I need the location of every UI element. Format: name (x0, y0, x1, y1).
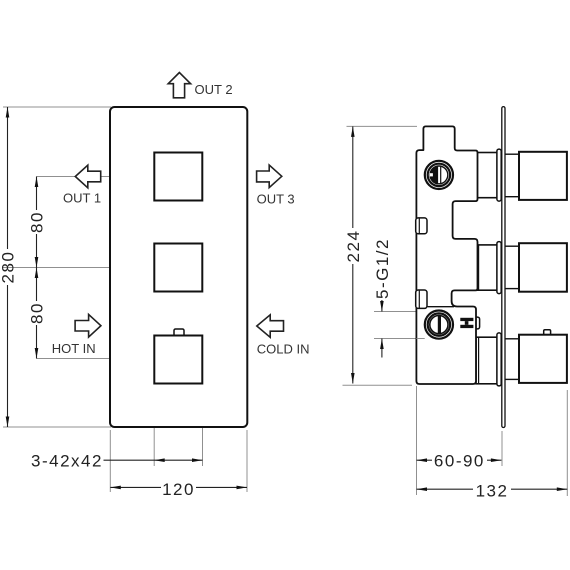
svg-text:80: 80 (28, 211, 47, 233)
svg-text:OUT 2: OUT 2 (195, 82, 233, 97)
svg-text:OUT 1: OUT 1 (63, 191, 101, 206)
svg-text:60-90: 60-90 (434, 452, 485, 471)
svg-text:224: 224 (344, 230, 363, 263)
svg-text:3-42x42: 3-42x42 (31, 452, 103, 471)
svg-text:HOT IN: HOT IN (52, 341, 96, 356)
svg-text:OUT 3: OUT 3 (257, 192, 295, 207)
svg-text:280: 280 (0, 251, 18, 284)
svg-text:5-G1/2: 5-G1/2 (373, 238, 392, 299)
svg-text:80: 80 (28, 302, 47, 324)
svg-text:COLD IN: COLD IN (257, 342, 310, 357)
svg-text:120: 120 (162, 480, 195, 499)
svg-text:132: 132 (476, 481, 509, 500)
